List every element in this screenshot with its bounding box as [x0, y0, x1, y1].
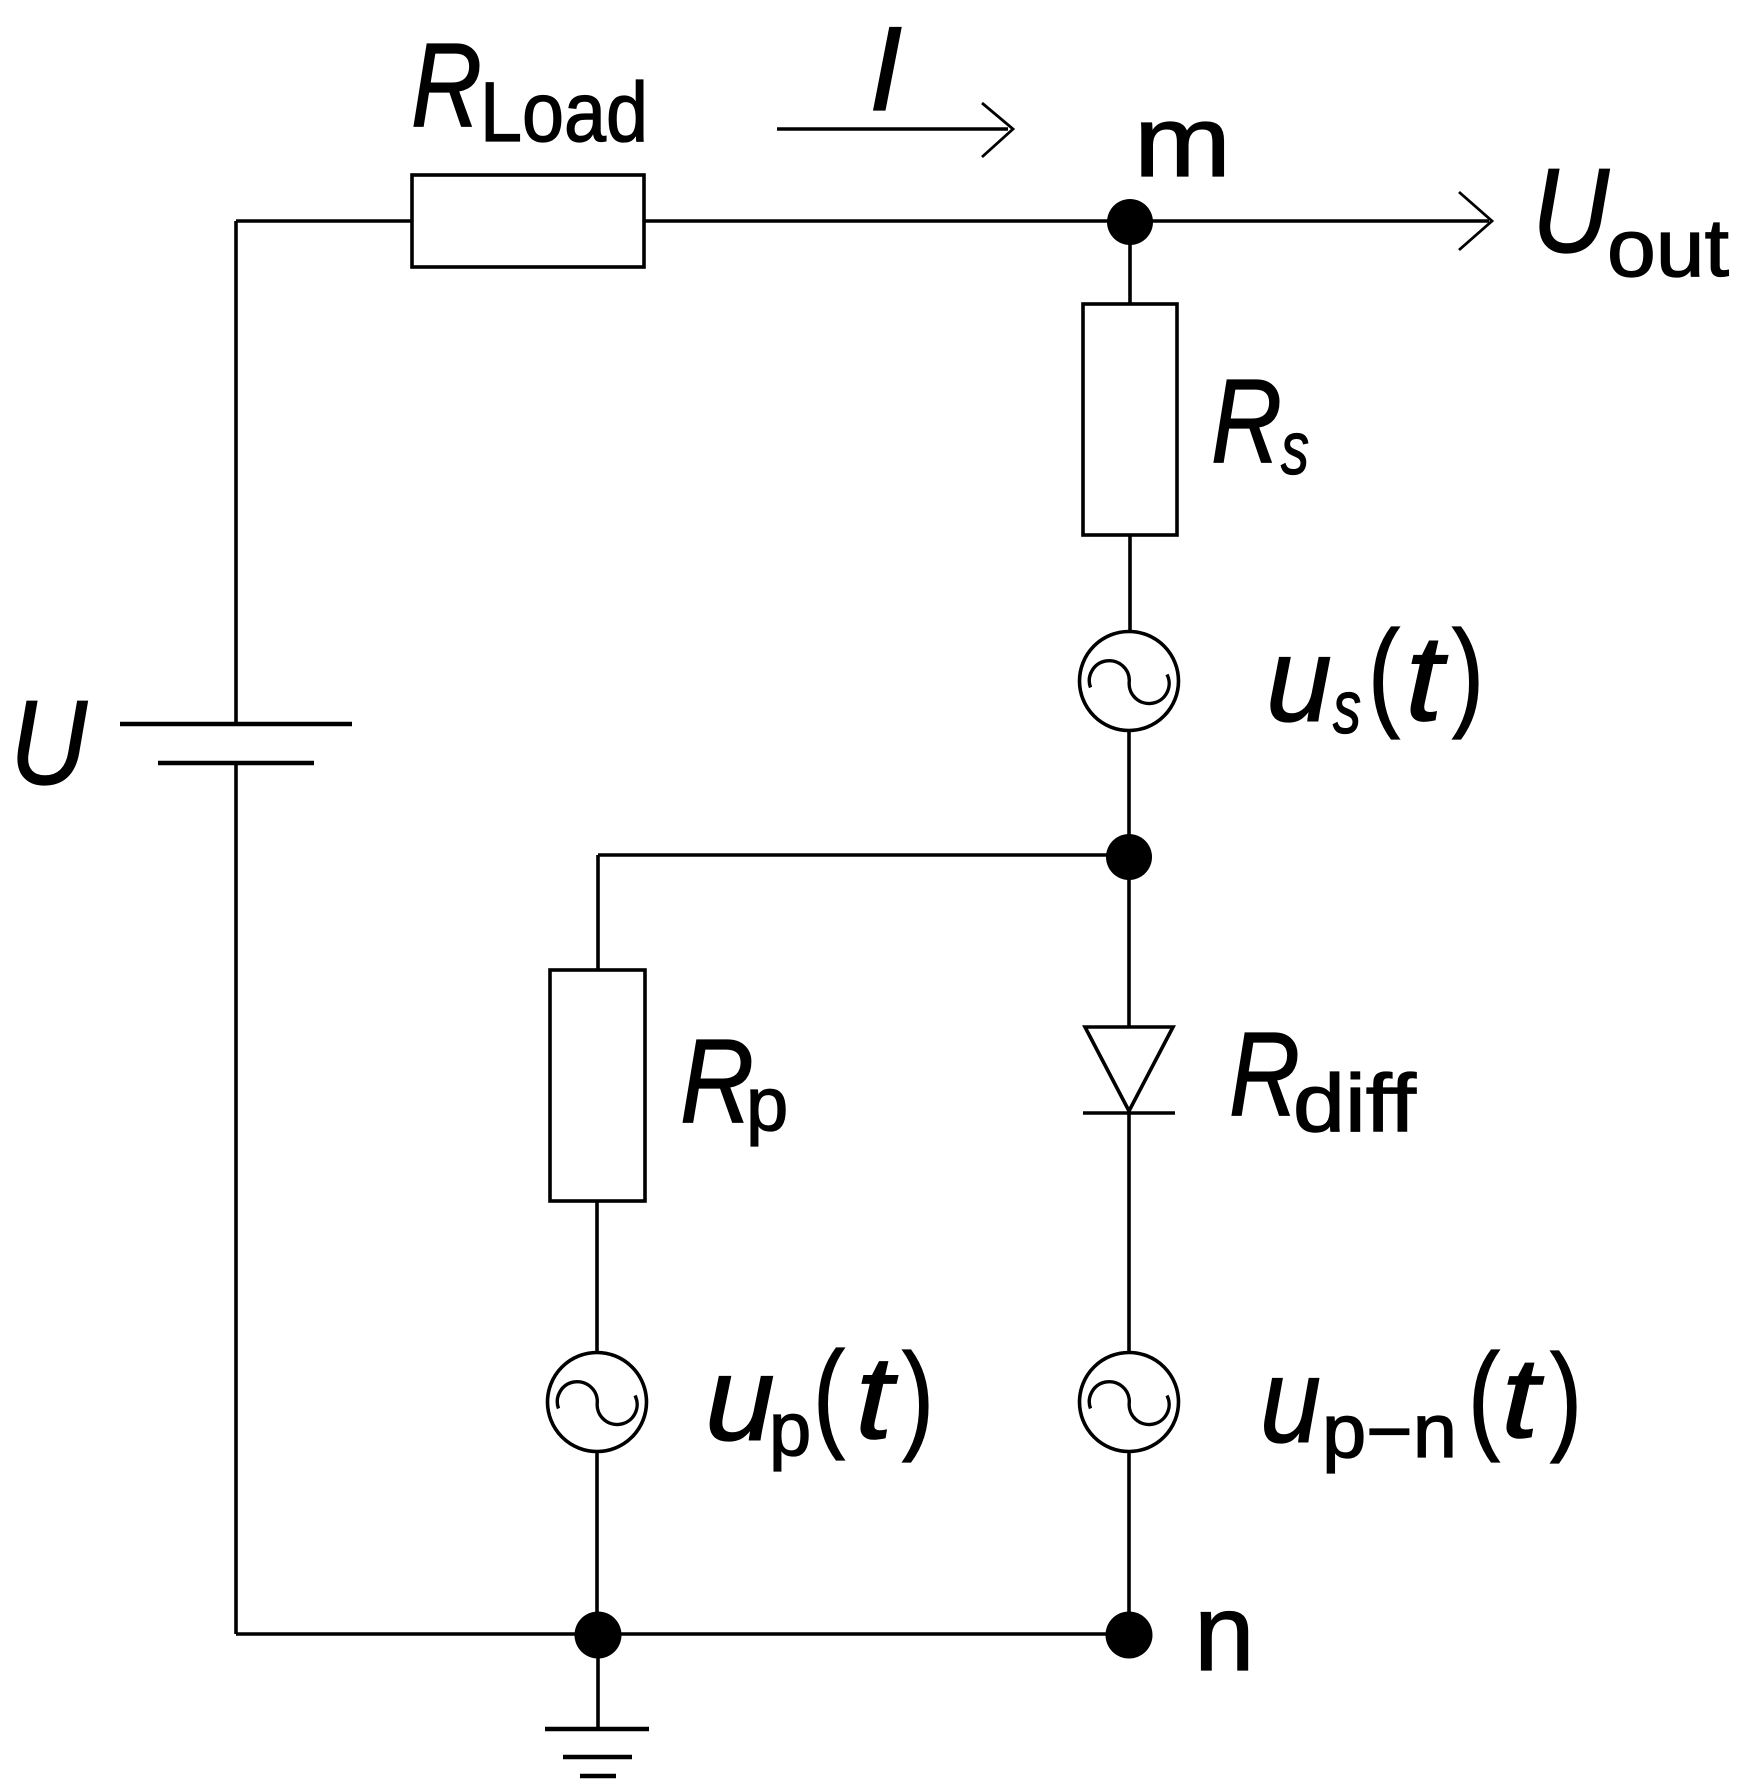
ground bar 2 — [563, 1755, 632, 1760]
svg-text:t: t — [855, 1332, 898, 1464]
svg-text:R: R — [680, 1014, 754, 1148]
U_out arrow head — [1459, 192, 1492, 250]
wire u_s to node p — [1127, 730, 1131, 857]
svg-text:diff: diff — [1293, 1058, 1416, 1149]
current arrow I head — [982, 103, 1013, 157]
wire R_s to u_s source — [1128, 535, 1132, 632]
svg-text:): ) — [1452, 606, 1484, 740]
battery U plate long — [120, 722, 352, 727]
svg-text:t: t — [1501, 1335, 1544, 1462]
svg-text:n: n — [1194, 1572, 1255, 1694]
svg-text:p: p — [769, 1387, 811, 1472]
svg-text:): ) — [1550, 1330, 1582, 1464]
svg-text:t: t — [1405, 610, 1449, 746]
svg-text:u: u — [705, 1332, 775, 1466]
svg-text:R: R — [1211, 354, 1282, 488]
wire u_p-n to node n — [1127, 1451, 1131, 1634]
battery U plate short — [158, 761, 314, 766]
wire ground stem — [596, 1634, 600, 1729]
svg-text:out: out — [1607, 203, 1729, 294]
node m — [1107, 199, 1153, 245]
svg-text:I: I — [869, 2, 902, 136]
svg-text:p: p — [746, 1062, 788, 1147]
diode Rdiff cathode bar — [1083, 1111, 1175, 1115]
node ground junction — [575, 1612, 622, 1659]
svg-text:Load: Load — [480, 65, 648, 159]
wire node p horizontal to R_p branch — [598, 853, 1129, 857]
wire down to R_p — [596, 855, 600, 971]
ac source u_s circle — [1080, 632, 1179, 731]
node n — [1106, 1612, 1153, 1659]
svg-text:R: R — [411, 18, 482, 152]
wire node m to R_s — [1128, 221, 1132, 305]
svg-text:(: ( — [1368, 606, 1400, 740]
svg-text:m: m — [1134, 86, 1231, 198]
svg-text:(: ( — [1468, 1329, 1500, 1463]
svg-text:(: ( — [813, 1327, 845, 1461]
ac source u_p-n circle — [1080, 1353, 1179, 1452]
svg-text:s: s — [1333, 665, 1361, 749]
wire diode to u_p-n source — [1127, 1113, 1131, 1353]
wire from R_Load to U_out arrow — [644, 219, 1489, 223]
svg-text:p−n: p−n — [1322, 1389, 1457, 1474]
ground bar 3 — [580, 1774, 616, 1779]
svg-text:U: U — [10, 676, 88, 810]
svg-text:): ) — [902, 1329, 934, 1463]
wire u_p to bottom node — [595, 1451, 599, 1634]
resistor R_p — [550, 970, 645, 1201]
ac source u_p circle — [548, 1353, 647, 1452]
wire left vertical lower — [234, 763, 238, 1634]
svg-text:R: R — [1229, 1007, 1300, 1141]
svg-text:u: u — [1260, 1334, 1321, 1468]
ac source u_p sine — [557, 1382, 637, 1425]
diode Rdiff triangle — [1085, 1027, 1173, 1111]
wire R_p to u_p source — [595, 1201, 599, 1353]
node p junction — [1106, 834, 1152, 880]
current arrow I shaft — [777, 127, 1008, 130]
wire bottom horizontal — [236, 1632, 1129, 1636]
svg-text:u: u — [1266, 613, 1332, 747]
resistor R_s — [1083, 304, 1177, 535]
ac source u_p-n sine — [1089, 1382, 1169, 1425]
wire top-left from battery branch to R_Load — [236, 219, 412, 223]
wire left vertical upper (U source top) — [234, 221, 238, 724]
wire node p to diode — [1127, 857, 1131, 1028]
resistor R_Load — [412, 175, 644, 267]
ground bar 1 — [545, 1727, 649, 1732]
svg-text:U: U — [1532, 144, 1610, 278]
ac source u_s sine — [1089, 661, 1169, 704]
svg-text:s: s — [1281, 406, 1309, 490]
